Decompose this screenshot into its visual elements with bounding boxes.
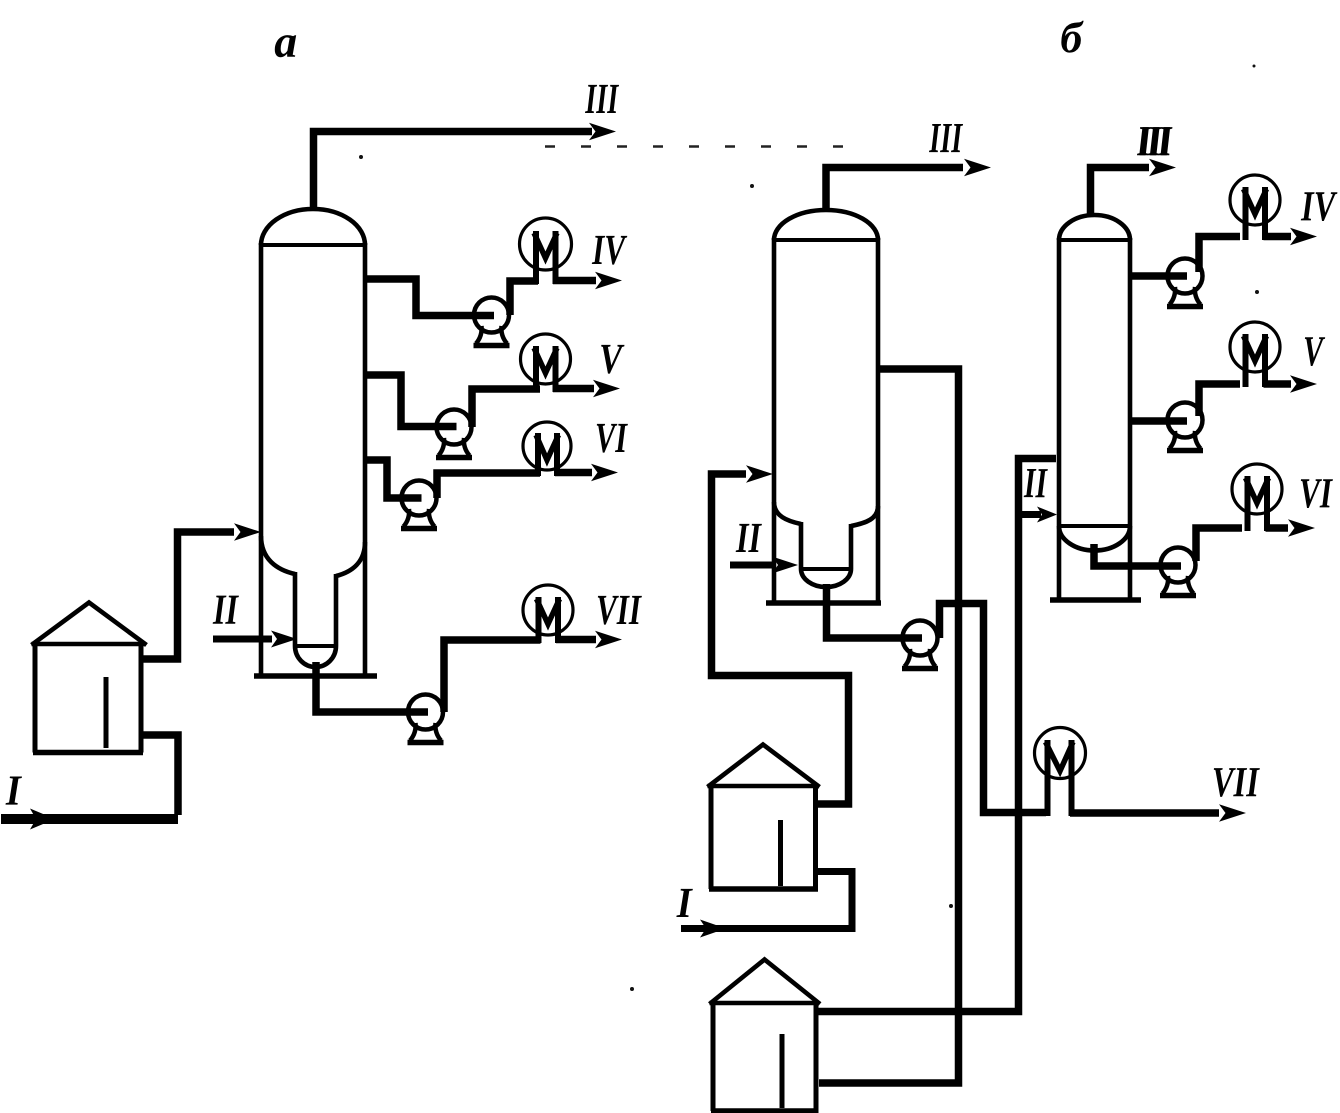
wire pump P6 outlet to cooler M5	[1199, 237, 1240, 273]
wire III overhead line K1	[314, 132, 593, 212]
svg-text:V: V	[1303, 328, 1325, 375]
cooler M7 (stream VI right)	[1232, 464, 1282, 531]
svg-text:IV: IV	[1300, 183, 1337, 230]
pump P7 (column K3 side-draw V)	[1167, 403, 1203, 451]
arrowhead stream II K3	[1037, 507, 1057, 523]
arrowhead recycle into K2	[746, 465, 773, 482]
wire feed from tank T1 top into column K1	[141, 532, 234, 659]
svg-text:II: II	[1023, 460, 1048, 507]
arrowhead stream VI left	[591, 464, 618, 481]
wire stream I horizontal line	[1, 814, 178, 824]
scan speck	[750, 184, 754, 188]
wire pump P8 outlet to cooler M7	[1196, 528, 1242, 561]
column K2 (first column, diagram b)	[766, 210, 881, 603]
tank T2 (feed tank, diagram b)	[708, 745, 820, 890]
pump P1 (column K1 side-draw IV)	[474, 298, 510, 346]
svg-text:VI: VI	[595, 415, 628, 462]
svg-text:IV: IV	[591, 227, 627, 274]
arrowhead stream III K3	[1149, 159, 1176, 176]
pump P4 (column K1 bottoms)	[408, 695, 444, 743]
wire stream II arrow into K3	[1022, 511, 1041, 518]
svg-text:II: II	[212, 587, 239, 634]
scan speck	[949, 904, 953, 908]
wire side-draw from K3 to pump P7	[1128, 417, 1187, 425]
cooler M1 (stream IV left)	[520, 218, 572, 284]
svg-text:III: III	[585, 76, 620, 123]
svg-text:III: III	[929, 115, 964, 162]
wire cooler M6 to stream V arrow	[1264, 380, 1292, 388]
arrowhead stream VII right	[1219, 804, 1246, 821]
arrowhead stream I left	[30, 809, 55, 830]
cooler M4 (stream VII left)	[523, 585, 573, 643]
arrowhead stream V left	[593, 380, 620, 397]
cooler M8 (stream VII right)	[1035, 728, 1086, 817]
pump P8 (column K3 bottoms)	[1160, 548, 1196, 596]
column K1 (vacuum column, diagram a)	[254, 209, 377, 676]
arrowhead stream IV right	[1290, 228, 1317, 245]
wire pump P2 outlet to cooler M2	[472, 389, 540, 427]
arrowhead stream II left	[271, 631, 297, 648]
svg-text:б: б	[1060, 13, 1084, 62]
arrowhead stream VI right	[1288, 519, 1315, 536]
wire K2 side-draw down to tank T3 bottom	[819, 369, 959, 1083]
wire K1 bottoms to pump P4	[316, 662, 428, 712]
pump P6 (column K3 side-draw IV)	[1167, 259, 1203, 307]
tank T1 (feed tank, diagram a)	[32, 603, 147, 753]
arrowhead stream II K2	[772, 557, 798, 574]
wire cooler M8 to stream VII arrow	[1070, 809, 1219, 817]
pump P3 (column K1 side-draw VI)	[401, 481, 437, 529]
cooler M5 (stream IV right)	[1230, 175, 1280, 240]
wire stream I into tank T2 bottom	[681, 872, 852, 929]
svg-text:III: III	[1139, 118, 1172, 165]
scan speck	[1253, 65, 1256, 68]
wire cooler M5 to stream IV arrow	[1264, 233, 1292, 241]
cooler M2 (stream V left)	[521, 334, 571, 392]
wire tank T2 top recycle into column K2	[712, 474, 849, 804]
wire pump P3 outlet to cooler M3	[437, 473, 540, 498]
arrowhead stream III K2	[964, 159, 991, 176]
arrowhead stream VII left	[595, 631, 622, 648]
wire pump P1 outlet to cooler M1	[510, 281, 538, 315]
arrowhead feed into K1	[234, 523, 261, 540]
wire K2 bottoms to pump P5	[827, 584, 923, 638]
arrowhead stream IV left	[595, 272, 622, 289]
wire cooler M7 to stream VI arrow	[1266, 524, 1289, 532]
arrowhead stream I right	[700, 920, 726, 938]
svg-text:VII: VII	[1212, 759, 1260, 806]
wire side-draw VI from K1 to pump P3	[363, 460, 422, 498]
pump P2 (column K1 side-draw V)	[436, 410, 472, 458]
arrowhead stream V right	[1290, 375, 1317, 392]
tank T3 (bottoms tank, diagram b)	[710, 960, 821, 1112]
svg-text:I: I	[676, 880, 693, 927]
pump P5 (column K2 bottoms)	[902, 621, 938, 669]
wire K3 bottoms to pump P8	[1094, 544, 1181, 566]
svg-text:II: II	[735, 515, 762, 562]
svg-text:V: V	[599, 336, 625, 383]
cooler M3 (stream VI left)	[523, 422, 571, 476]
wire tank T3 top to II riser of K3	[816, 459, 1056, 1012]
wire stream I into tank T1 bottom	[141, 735, 178, 815]
wire cooler M4 to stream VII arrow	[556, 636, 596, 644]
wire stream II arrow into K2 bottom	[730, 562, 772, 569]
scan speck	[1255, 290, 1259, 294]
svg-text:VII: VII	[596, 587, 642, 634]
wire III overhead line K2	[826, 168, 963, 212]
wire side-draw from K3 to pump P6	[1128, 272, 1187, 280]
scan speck	[630, 987, 634, 991]
wire stream II arrow into K1 bottom	[213, 636, 272, 643]
svg-text:VI: VI	[1299, 470, 1333, 517]
wire cooler M3 to stream VI arrow	[555, 469, 592, 477]
wire cooler M2 to stream V arrow	[553, 385, 594, 393]
wire III overhead line K3	[1091, 168, 1150, 216]
cooler M6 (stream V right)	[1230, 322, 1280, 387]
svg-text:a: a	[274, 16, 297, 67]
scan speck	[359, 155, 363, 159]
svg-text:I: I	[5, 768, 22, 815]
wire side-draw IV from K1 to pump P1	[363, 279, 494, 316]
arrowhead stream III left	[589, 123, 616, 140]
wire pump P5 outlet down to cooler M8	[940, 604, 1047, 813]
wire side-draw V from K1 to pump P2	[363, 375, 457, 427]
column K3 (second column, diagram b)	[1050, 215, 1141, 600]
wire pump P4 outlet to cooler M4	[444, 640, 541, 712]
wire pump P7 outlet to cooler M6	[1199, 384, 1240, 416]
wire cooler M1 to stream IV arrow	[553, 277, 596, 285]
scan artifact dashes under III line	[545, 145, 862, 148]
